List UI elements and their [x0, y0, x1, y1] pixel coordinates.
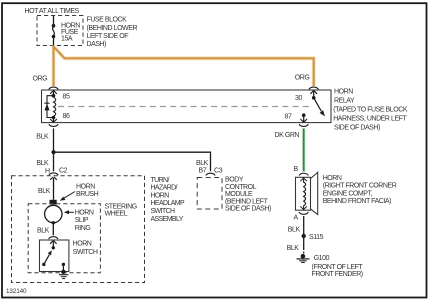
label STEERING WHEEL [105, 204, 137, 218]
svg-text:SWITCH: SWITCH [151, 208, 175, 215]
horn brush (filled block) [50, 200, 57, 205]
connector at horn switch [49, 237, 58, 248]
ground G100 [297, 254, 310, 263]
wire DK GRN to horn [302, 128, 305, 171]
horn coil [300, 177, 307, 210]
label BODY CONTROL MODULE [225, 177, 271, 213]
svg-text:DASH): DASH) [87, 41, 107, 48]
connector at horn pin B [299, 173, 308, 175]
svg-text:BODY: BODY [225, 177, 244, 184]
svg-text:ASSEMBLY: ASSEMBLY [151, 216, 184, 223]
connector C2 [49, 173, 58, 180]
svg-text:BRUSH: BRUSH [76, 191, 99, 198]
label HORN SLIP RING with leader arrow [64, 210, 94, 232]
svg-text:STEERING: STEERING [105, 204, 137, 211]
svg-text:HARNESS, UNDER LEFT: HARNESS, UNDER LEFT [333, 116, 407, 123]
svg-text:H: H [45, 168, 50, 175]
connector below relay pin 86 [49, 118, 58, 127]
svg-text:HORN: HORN [323, 175, 342, 182]
svg-text:ORG: ORG [295, 74, 310, 81]
value label HORN FUSE 15A [61, 23, 80, 43]
relay internal mechanical link (dashed) [58, 106, 312, 108]
label HORN RELAY location [333, 89, 408, 132]
wire from HOT feed into fuse [53, 16, 55, 26]
relay U HORN RELAY box [42, 90, 332, 123]
svg-text:ORG: ORG [33, 75, 48, 82]
svg-text:RING: RING [75, 225, 91, 232]
svg-text:(RIGHT FRONT CORNER: (RIGHT FRONT CORNER [323, 183, 397, 190]
svg-text:FRONT FENDER): FRONT FENDER) [312, 271, 363, 278]
svg-text:FUSE BLOCK: FUSE BLOCK [87, 17, 128, 24]
svg-text:SWITCH: SWITCH [73, 249, 98, 256]
svg-text:ENGINE COMPT,: ENGINE COMPT, [323, 190, 373, 197]
junction S [51, 150, 55, 154]
svg-text:CONTROL: CONTROL [225, 184, 257, 191]
svg-text:(FRONT OF LEFT: (FRONT OF LEFT [312, 264, 364, 271]
connector at horn pin A [299, 212, 308, 214]
horn slip ring (circle) [45, 205, 62, 222]
splice S115 [302, 234, 306, 238]
svg-text:HEADLAMP: HEADLAMP [151, 200, 186, 207]
svg-text:WHEEL: WHEEL [105, 211, 128, 218]
svg-text:(BEHIND LOWER: (BEHIND LOWER [87, 25, 138, 32]
svg-text:BLK: BLK [36, 134, 49, 141]
wire BLK slip ring to horn switch [52, 225, 54, 236]
svg-text:87: 87 [285, 114, 292, 121]
svg-text:HOT AT ALL TIMES: HOT AT ALL TIMES [25, 8, 80, 15]
label TURN/HAZARD/HORN HEADLAMP SWITCH ASSEMBLY [151, 177, 186, 223]
wire BLK C2 to horn brush [53, 178, 55, 200]
svg-text:LEFT SIDE OF: LEFT SIDE OF [87, 33, 129, 40]
wire BLK junction to BCM B7 [54, 152, 211, 171]
svg-text:C2: C2 [59, 167, 68, 174]
svg-text:SLIP: SLIP [75, 217, 89, 224]
wire BLK junction to C2 [53, 152, 55, 171]
svg-text:(BEHIND LEFT: (BEHIND LEFT [225, 198, 269, 205]
svg-text:SIDE OF DASH): SIDE OF DASH) [225, 206, 271, 213]
svg-text:86: 86 [63, 113, 70, 120]
fuse block dashed box [37, 16, 83, 46]
connector at relay pin 85 [49, 87, 58, 96]
svg-text:HAZARD/: HAZARD/ [151, 185, 178, 192]
svg-text:MODULE: MODULE [225, 191, 253, 198]
ground at horn switch [59, 270, 68, 279]
fuse F HORN FUSE 15A [52, 24, 56, 38]
svg-text:BLK: BLK [288, 227, 301, 234]
relay switch pin 30 to 87 [302, 96, 325, 117]
wire BLK horn A to S115 [303, 216, 305, 236]
svg-text:85: 85 [63, 93, 70, 100]
svg-text:HORN: HORN [334, 89, 353, 96]
svg-text:SIDE OF DASH): SIDE OF DASH) [334, 125, 380, 132]
wire BLK relay 86 to junction [53, 128, 55, 152]
label HORN location [323, 175, 397, 205]
wire ORG branch to relay pin 30 [54, 47, 314, 87]
switch SW (momentary) [42, 246, 65, 271]
label G100 location [312, 264, 364, 278]
svg-text:HORN: HORN [73, 241, 92, 248]
wire fuse to branch (black stub) [53, 38, 55, 46]
horn bell shape [311, 172, 318, 214]
svg-text:C3: C3 [214, 167, 223, 174]
svg-text:BEHIND FRONT FACIA): BEHIND FRONT FACIA) [323, 198, 391, 205]
svg-text:BLK: BLK [287, 245, 300, 252]
wire ORG vertical to relay pin 85 [52, 46, 56, 87]
relay coil with diode between pins 85/86 [44, 94, 55, 119]
label HORN SWITCH [73, 241, 98, 256]
svg-text:BLK: BLK [36, 160, 49, 167]
svg-text:HORN: HORN [76, 183, 95, 190]
label HORN BRUSH with leader arrow [60, 183, 99, 200]
svg-text:RELAY: RELAY [334, 98, 355, 105]
svg-text:132140: 132140 [6, 288, 27, 295]
horn component box [296, 177, 311, 210]
label FUSE BLOCK location [87, 17, 138, 49]
svg-text:HORN: HORN [75, 210, 94, 217]
steering wheel dashed box [28, 204, 100, 273]
connector C3 at BCM [206, 173, 215, 175]
svg-text:G100: G100 [314, 255, 330, 262]
svg-text:BLK: BLK [38, 188, 51, 195]
svg-text:B7: B7 [199, 167, 207, 174]
svg-text:TURN/: TURN/ [151, 177, 170, 184]
wire BLK S115 to G100 [303, 236, 305, 250]
svg-text:15A: 15A [61, 36, 73, 43]
svg-text:HORN: HORN [151, 192, 170, 199]
connector below relay pin 87 [299, 115, 308, 126]
svg-text:BLK: BLK [196, 160, 209, 167]
connector at relay pin 30 [309, 87, 318, 98]
svg-text:S115: S115 [309, 234, 324, 241]
svg-text:(TAPED TO FUSE BLOCK: (TAPED TO FUSE BLOCK [333, 107, 408, 114]
body control module dashed box [197, 178, 222, 210]
svg-text:BLK: BLK [37, 228, 50, 235]
horn switch box [40, 240, 69, 272]
svg-text:30: 30 [295, 95, 302, 102]
turn/hazard/horn switch assembly dashed box [12, 176, 145, 283]
svg-text:DK GRN: DK GRN [275, 132, 300, 139]
